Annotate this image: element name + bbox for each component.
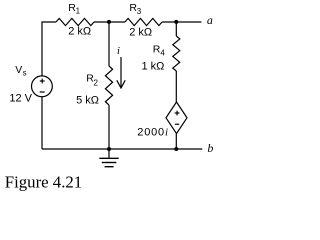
wire right branch top	[175, 22, 177, 36]
ground	[99, 149, 118, 167]
wire middle branch bottom	[108, 105, 110, 149]
current arrow i	[117, 46, 125, 88]
svg-text:12 V: 12 V	[9, 93, 32, 105]
svg-text:3: 3	[137, 7, 142, 16]
wire middle branch top	[108, 22, 110, 66]
dependent source 2000i	[137, 102, 187, 139]
svg-text:i: i	[117, 46, 120, 57]
svg-text:V: V	[15, 64, 22, 76]
wire top right to node a	[162, 21, 201, 23]
svg-text:1: 1	[76, 6, 81, 15]
svg-text:2: 2	[94, 79, 99, 88]
resistor R4	[142, 36, 180, 73]
svg-text:1 kΩ: 1 kΩ	[142, 61, 165, 73]
caption Figure 4.21	[5, 172, 82, 191]
svg-text:b: b	[207, 141, 213, 155]
node b	[207, 141, 213, 155]
svg-text:2000i: 2000i	[137, 127, 169, 139]
junction dot top right	[174, 20, 178, 24]
junction dot top middle	[107, 20, 111, 24]
voltage source Vs	[9, 64, 52, 105]
resistor R2	[76, 66, 113, 107]
wire bottom rail	[42, 148, 202, 150]
junction dot bottom right	[174, 147, 178, 151]
svg-text:a: a	[207, 13, 213, 27]
wire left bottom (Vs to bottom rail)	[41, 97, 43, 149]
resistor R3	[125, 2, 162, 38]
junction dot bottom middle	[107, 147, 111, 151]
svg-text:s: s	[23, 68, 27, 77]
wire top-left horizontal	[42, 22, 56, 76]
wire top middle (R1 to R3)	[94, 21, 125, 23]
resistor R1	[56, 2, 94, 38]
svg-text:5 kΩ: 5 kΩ	[76, 95, 99, 107]
svg-text:4: 4	[160, 48, 165, 57]
svg-text:2 kΩ: 2 kΩ	[129, 26, 152, 38]
svg-text:2 kΩ: 2 kΩ	[68, 26, 91, 38]
wire right branch bottom	[175, 134, 177, 149]
wire right branch middle (R4 to dependent source)	[175, 71, 177, 102]
node a	[207, 13, 213, 27]
svg-text:Figure 4.21: Figure 4.21	[5, 172, 82, 191]
